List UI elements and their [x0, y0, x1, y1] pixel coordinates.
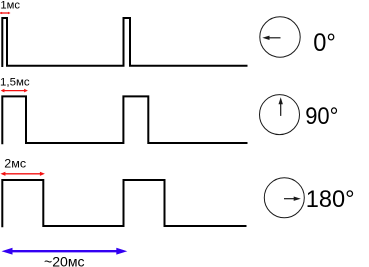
svg-text:2мс: 2мс [4, 157, 26, 171]
svg-text:~20мс: ~20мс [44, 254, 85, 267]
svg-text:0°: 0° [313, 29, 336, 57]
svg-text:1мс: 1мс [0, 0, 20, 12]
svg-text:1,5мс: 1,5мс [0, 77, 30, 89]
svg-text:180°: 180° [306, 186, 355, 213]
svg-text:90°: 90° [305, 103, 338, 130]
